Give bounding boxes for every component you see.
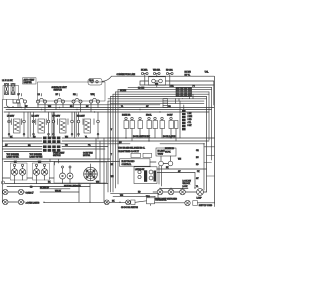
svg-text:T: T [111,154,113,156]
label bake [53,153,65,158]
lamp L5 [18,199,23,204]
wire bottom right [155,203,215,207]
svg-text:CD DOOR SWITCH: CD DOOR SWITCH [121,207,139,209]
surface element E1 [7,112,25,137]
switch contact X1 [157,189,163,195]
wire main bus under switches [4,105,214,112]
svg-text:TSTAT: TSTAT [158,153,165,156]
svg-text:5 GY: 5 GY [188,125,193,127]
switch contact X4 [104,200,109,205]
lamp L1 [197,189,207,200]
relay pair K4 [122,114,143,142]
wire left drop bus [108,90,118,192]
svg-text:UNLOCK: UNLOCK [183,183,191,185]
label selector [30,154,43,159]
wire through contacts [153,191,196,193]
svg-text:LR: LR [38,94,41,96]
svg-text:RD: RD [196,164,199,166]
label box vent damper [23,78,37,84]
svg-text:DOOR LATCH: DOOR LATCH [163,135,176,138]
surface element E4 [77,112,99,139]
label pin list CN2 [188,113,193,127]
svg-text:LIGHT SW BK: LIGHT SW BK [7,157,20,159]
svg-text:SUPPLY CORD: SUPPLY CORD [199,205,213,207]
power relay K2 [11,83,15,94]
switch contact X2 [168,189,174,195]
node spokes S1 S2 [12,170,46,174]
svg-text:BROIL: BROIL [146,115,152,117]
svg-text:WH: WH [178,159,182,161]
relay DLB K3 [149,77,166,85]
surface switch SW1 [16,94,26,110]
svg-text:TOD HR MIN SEL BAKE BR CL: TOD HR MIN SEL BAKE BR CL [118,147,145,150]
surface switch SW3 [54,94,64,110]
svg-text:BK WH: BK WH [185,72,192,74]
wire from K1 down right [7,100,23,108]
node cluster P1 [88,76,112,85]
label surface unit switch [52,86,68,92]
indicator switch S1 [10,163,27,183]
wire relay to right edge [166,81,214,105]
svg-text:P1 P2: P1 P2 [89,80,94,82]
surface switch SW4 [72,94,82,112]
ERC box U1 [120,159,151,166]
svg-text:LR 240V: LR 240V [32,116,40,118]
wire step lines [111,193,159,205]
connector block CN4 [43,145,60,151]
svg-text:LF: LF [18,94,21,96]
wire left edge drop [1,100,3,203]
lamp L3 [18,189,23,194]
wire upper bottomright [157,169,207,189]
svg-text:CONV FAN: CONV FAN [83,152,93,155]
terminal block TB1 enclosure [3,86,19,100]
svg-text:RF: RF [56,94,59,96]
svg-text:SWITCH: SWITCH [53,155,61,157]
svg-text:WH: WH [111,176,115,178]
contact pair right [159,156,173,166]
svg-text:YL: YL [85,136,87,138]
wire verticals misc [96,138,204,202]
wire ticks right column [204,147,215,176]
power relay K1 [5,83,9,94]
wire terminal ticks row B [11,119,94,125]
svg-text:CONV: CONV [167,115,173,117]
relay box right [156,148,176,156]
svg-text:LAMP: LAMP [197,196,203,199]
svg-text:SWITCH: SWITCH [54,90,63,92]
svg-text:BU: BU [196,157,199,159]
connector strip CN2 [180,101,186,138]
lock motor M2 [185,200,198,205]
svg-text:LATCH SW: LATCH SW [135,168,144,171]
wire bus row C [2,159,110,162]
svg-text:CONNECTOR LINE: CONNECTOR LINE [117,74,136,76]
switch contact X5 [126,200,135,205]
svg-text:YL: YL [196,186,198,188]
svg-text:AUTO VENT: AUTO VENT [24,79,36,82]
svg-text:RD-WH: RD-WH [138,88,145,90]
switch contact X3 [180,189,186,195]
svg-text:ELECTRONIC: ELECTRONIC [122,161,135,163]
surface switch SW2 [36,94,46,112]
svg-text:PK: PK [197,171,200,173]
svg-text:RR: RR [73,94,76,96]
svg-text:DOOR LOCK: DOOR LOCK [156,200,168,202]
connector block CN1 [170,85,195,96]
svg-text:+OVEN LIGHTS: +OVEN LIGHTS [26,203,41,205]
fuse F2 [153,69,161,88]
latch motor box [134,167,157,184]
wire relay left [140,81,149,85]
wire row1 [2,189,79,192]
svg-text:2 WH: 2 WH [188,116,193,118]
svg-text:BK-WH RD: BK-WH RD [165,148,175,150]
node dot bottom [119,202,120,203]
connector ladder CN5 [163,99,168,108]
surface unit switch enclosure [38,82,106,101]
svg-text:GY: GY [196,178,199,180]
svg-text:OVEN LT: OVEN LT [26,193,35,195]
relay pair K5 [146,115,165,142]
wire right edge verticals [207,76,215,203]
svg-text:3 RD: 3 RD [188,119,193,121]
wire code labels [5,83,200,202]
wire bottom mid [109,201,146,203]
svg-text:WH 15A: WH 15A [153,69,161,72]
wire band lower mid left [2,159,108,202]
svg-text:TXL: TXL [205,72,210,74]
svg-text:1 BK: 1 BK [188,113,193,115]
svg-text:RD 20A: RD 20A [166,69,173,72]
svg-text:LIGHT SW WH: LIGHT SW WH [30,157,43,159]
node dots on bus [8,107,160,122]
wire taps under CN1 [176,93,194,104]
thermal fuse TF1 [146,196,167,204]
oven enclosure box [54,162,107,183]
wire from K2 [13,100,20,108]
svg-text:BK WH RD: BK WH RD [40,187,50,189]
node boxes clock [131,153,152,157]
svg-text:LF 240V: LF 240V [7,116,15,118]
node terminals row B bottom [8,133,99,135]
wire inter-cluster drops [28,112,76,138]
motor M1 [84,164,98,181]
svg-text:BAKE BR: BAKE BR [122,114,131,117]
label lock switch [183,181,192,188]
svg-text:V: V [111,129,113,131]
svg-text:LOCK SW: LOCK SW [183,181,192,183]
label fan [83,152,93,158]
svg-text:SURFACE UNIT: SURFACE UNIT [52,86,68,89]
fuse F1 [141,69,148,86]
svg-text:CONTROL: CONTROL [122,164,133,166]
svg-text:CLEAN TIMED LOCK LT: CLEAN TIMED LOCK LT [118,150,140,153]
svg-text:4 YL: 4 YL [188,122,192,124]
fuse F3 [166,69,173,88]
lamp L6 left [2,181,5,184]
connector block CN3 [43,137,60,144]
svg-text:L1 N L2 BK: L1 N L2 BK [2,80,13,82]
svg-text:WH-BK: WH-BK [55,190,62,192]
svg-text:DAMPER: DAMPER [24,81,33,84]
wire mid right [108,162,162,187]
surface element E3 [52,112,73,137]
lamp L2 [3,189,8,194]
svg-text:OR: OR [196,150,199,152]
svg-text:MOTOR: MOTOR [83,155,91,157]
wire rows left mid [2,147,108,152]
label thermostat [7,154,20,159]
wire connector line feed [112,75,214,77]
svg-text:RD YL: RD YL [185,75,191,77]
junction dots extra [8,106,204,203]
light switch S3 [60,166,74,179]
wire row2 [2,201,104,203]
svg-text:LOCK: LOCK [183,186,189,188]
svg-text:GY-PK: GY-PK [165,151,171,153]
indicator switch S2 [33,163,50,183]
lamp L4 [3,199,8,204]
svg-text:YL: YL [121,106,123,108]
wire band mid [2,138,214,144]
relay K6 [167,115,178,142]
svg-text:WW: WW [91,94,95,96]
svg-text:DOOR SWITCH BK: DOOR SWITCH BK [133,136,150,138]
svg-text:BK 15A: BK 15A [141,69,148,72]
label BK WH RD [185,72,192,77]
surface switch SW5 [89,94,99,112]
svg-text:BK-WH: BK-WH [120,90,127,92]
surface element E2 [32,112,50,137]
wire bus right top [108,85,214,103]
